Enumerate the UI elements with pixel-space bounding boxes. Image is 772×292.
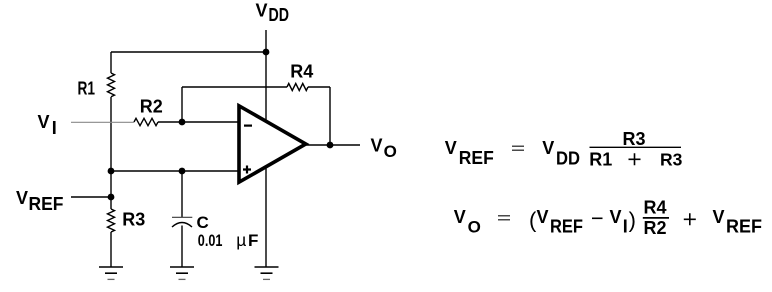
ground symbol left	[99, 267, 123, 279]
capacitor C value label	[198, 230, 259, 250]
svg-text:R2: R2	[140, 97, 163, 117]
node plus-line cap dot	[179, 168, 186, 175]
svg-text:V: V	[713, 207, 725, 227]
svg-text:V: V	[445, 138, 457, 158]
equation 2 equals sign	[498, 216, 510, 220]
equation 1 plus sign	[629, 153, 641, 165]
wire R3 to ground	[110, 232, 112, 267]
wire cap bottom to ground	[181, 226, 183, 268]
capacitor C top plate	[172, 216, 192, 218]
wire feedback vertical right	[329, 87, 331, 145]
node inverting junction dot	[179, 119, 186, 126]
resistor R2	[134, 118, 158, 125]
svg-text:): )	[629, 207, 636, 232]
resistor R2 label	[140, 97, 163, 117]
node VREF label	[16, 188, 64, 214]
svg-text:R4: R4	[290, 62, 313, 82]
svg-text:O: O	[468, 217, 481, 236]
svg-text:REF: REF	[459, 148, 494, 168]
svg-text:V: V	[610, 207, 622, 227]
equation 2 fraction bar	[643, 217, 669, 219]
capacitor C curved plate	[172, 223, 192, 228]
node VDD junction dot	[263, 49, 270, 56]
wire VREF lead	[71, 196, 111, 198]
svg-text:V: V	[542, 138, 554, 158]
svg-text:µ: µ	[236, 230, 246, 250]
node VO label	[371, 136, 397, 162]
resistor R1	[108, 73, 115, 97]
op-amp plus sign	[243, 166, 251, 174]
svg-text:R3: R3	[623, 129, 646, 149]
svg-text:V: V	[454, 207, 466, 227]
op-amp minus sign	[244, 124, 252, 126]
resistor R1 label	[78, 78, 96, 98]
resistor R3 label	[122, 209, 145, 229]
svg-text:DD: DD	[269, 5, 290, 25]
resistor R3	[108, 209, 115, 232]
svg-text:I: I	[52, 118, 57, 138]
svg-text:R1: R1	[78, 78, 96, 98]
wire R2 to inverting input	[158, 121, 238, 123]
ground symbol middle	[170, 267, 194, 279]
svg-text:R4: R4	[644, 198, 667, 218]
svg-text:O: O	[384, 142, 397, 161]
node VREF junction dot	[108, 194, 115, 201]
node plus-line left dot	[108, 168, 115, 175]
node VDD label	[256, 0, 290, 24]
svg-text:R1: R1	[589, 150, 612, 170]
svg-text:REF: REF	[29, 194, 64, 214]
svg-text:F: F	[248, 231, 258, 250]
wire VDD stub	[265, 30, 267, 52]
wire feedback horizontal left	[182, 86, 287, 88]
wire R1 bottom to plus-line	[110, 97, 112, 171]
wire cap top	[181, 171, 183, 217]
wire power bottom segment to ground	[265, 168, 267, 267]
resistor R4 label	[290, 62, 313, 82]
svg-text:C: C	[197, 213, 209, 232]
ground symbol right	[255, 267, 279, 279]
equation 2 minus sign	[592, 217, 603, 219]
wire output	[306, 144, 360, 146]
svg-text:R2: R2	[644, 218, 667, 238]
wire VDD power top segment	[265, 52, 267, 120]
node output junction dot	[327, 142, 334, 149]
svg-text:I: I	[623, 216, 628, 236]
svg-text:V: V	[371, 136, 383, 156]
svg-text:R3: R3	[660, 150, 683, 170]
resistor R4	[287, 84, 308, 91]
svg-text:V: V	[16, 188, 28, 208]
svg-text:DD: DD	[556, 148, 580, 168]
svg-text:0.01: 0.01	[198, 231, 223, 250]
svg-text:REF: REF	[550, 216, 583, 236]
svg-text:V: V	[38, 112, 50, 132]
capacitor C label	[197, 213, 209, 232]
wire feedback vertical from node	[181, 87, 183, 122]
equation 2: VO = (VREF - VI) R4/R2 + VREF	[454, 207, 481, 236]
wire VI lead (gray)	[71, 121, 134, 123]
wire R1 branch top	[110, 52, 112, 73]
node VI label	[38, 112, 57, 138]
wire VREF node to R3	[110, 171, 112, 209]
wire feedback horizontal right	[308, 86, 330, 88]
wire top horizontal VDD to R1 branch	[111, 51, 266, 53]
equation 1: VREF = VDD R3/(R1+R3)	[445, 138, 494, 168]
op-amp U1	[239, 106, 306, 182]
wire plus input line	[111, 170, 238, 172]
svg-text:V: V	[256, 0, 268, 20]
equation 1 fraction bar	[590, 146, 682, 148]
equation 2 plus sign	[684, 213, 696, 225]
svg-text:REF: REF	[726, 216, 762, 236]
svg-text:R3: R3	[122, 209, 145, 229]
svg-text:V: V	[537, 207, 549, 227]
equation 1 equals sign	[512, 146, 524, 150]
